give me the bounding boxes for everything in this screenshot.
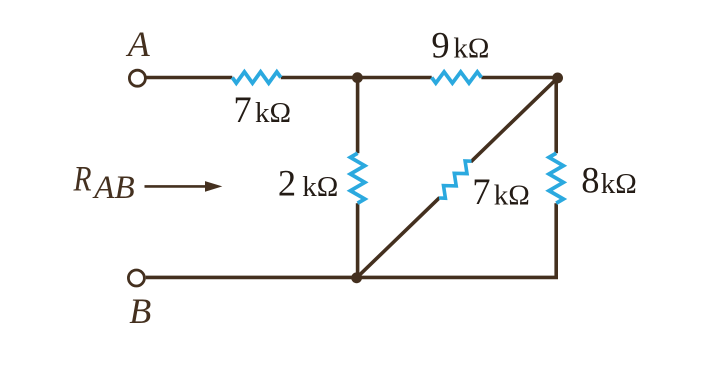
svg-text:B: B bbox=[129, 291, 151, 331]
svg-text:kΩ: kΩ bbox=[255, 97, 291, 129]
svg-text:R: R bbox=[73, 160, 92, 199]
svg-text:9: 9 bbox=[431, 25, 449, 66]
svg-text:kΩ: kΩ bbox=[453, 33, 489, 65]
svg-text:7: 7 bbox=[472, 171, 490, 212]
svg-text:A: A bbox=[126, 24, 151, 64]
svg-text:2: 2 bbox=[278, 163, 296, 204]
svg-text:AB: AB bbox=[92, 170, 134, 206]
svg-text:kΩ: kΩ bbox=[302, 171, 338, 203]
svg-text:kΩ: kΩ bbox=[494, 179, 530, 211]
svg-text:8: 8 bbox=[581, 160, 599, 201]
svg-text:kΩ: kΩ bbox=[601, 168, 637, 200]
svg-text:7: 7 bbox=[233, 89, 251, 130]
